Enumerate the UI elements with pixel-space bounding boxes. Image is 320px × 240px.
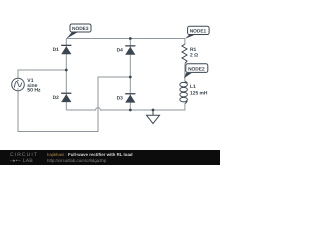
svg-text:50 Hz: 50 Hz bbox=[27, 88, 41, 94]
label R1 2 Ohm bbox=[190, 47, 198, 58]
label D3 bbox=[117, 95, 124, 101]
node NODE2 callout bbox=[184, 64, 208, 78]
svg-text:125 mH: 125 mH bbox=[190, 90, 208, 96]
label L1 125 mH bbox=[190, 84, 208, 96]
banner title text bbox=[47, 152, 133, 157]
diode D4 bbox=[125, 45, 135, 55]
node NODE1 callout bbox=[185, 26, 209, 39]
wire V1 bottom return to right bridge mid node bbox=[18, 77, 130, 132]
diode D3 bbox=[125, 93, 135, 103]
junction node right mid bbox=[129, 76, 132, 79]
svg-text:D4: D4 bbox=[117, 48, 124, 54]
diode D1 bbox=[61, 45, 71, 55]
svg-text:NODE2: NODE2 bbox=[188, 67, 205, 73]
footer banner bbox=[0, 150, 220, 165]
diode D2 bbox=[61, 93, 71, 103]
CircuitLab logo bbox=[10, 152, 38, 164]
label V1 sine 50 Hz bbox=[27, 78, 41, 93]
svg-text:NODE1: NODE1 bbox=[190, 29, 207, 35]
junction node left mid bbox=[65, 69, 68, 72]
svg-text:D3: D3 bbox=[117, 95, 124, 101]
junction node bottom rail D3 bbox=[129, 109, 132, 112]
wire right column resistor leads bbox=[184, 39, 186, 82]
ground bbox=[147, 110, 160, 124]
resistor R1 bbox=[182, 44, 187, 64]
inductor L1 bbox=[180, 82, 188, 104]
wire bottom rail with hop over return wire bbox=[66, 103, 185, 110]
svg-text:NODE3: NODE3 bbox=[72, 26, 89, 32]
label D1 bbox=[53, 47, 60, 53]
node NODE3 callout bbox=[66, 24, 91, 39]
svg-text:D1: D1 bbox=[53, 47, 60, 53]
wire left bridge branch vertical bbox=[65, 39, 67, 111]
junction node bottom rail ground bbox=[152, 109, 155, 112]
svg-text:L1: L1 bbox=[190, 84, 196, 90]
junction node top rail D4 bbox=[129, 37, 132, 40]
wire V1 top to left bridge mid node bbox=[18, 70, 66, 79]
label D2 bbox=[53, 95, 60, 101]
wire top rail NODE3 to NODE1 bbox=[66, 38, 185, 40]
banner url text bbox=[47, 158, 106, 163]
label D4 bbox=[117, 48, 124, 54]
voltage source V1 bbox=[12, 78, 25, 91]
wire right bridge branch vertical bbox=[129, 39, 131, 111]
svg-text:R1: R1 bbox=[190, 47, 197, 53]
svg-text:D2: D2 bbox=[53, 95, 60, 101]
svg-text:2 Ω: 2 Ω bbox=[190, 52, 198, 58]
